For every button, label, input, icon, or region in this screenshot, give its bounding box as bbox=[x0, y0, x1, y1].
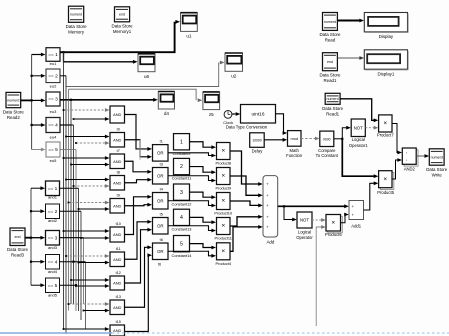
svg-text:×: × bbox=[221, 223, 225, 230]
svg-text:t11: t11 bbox=[116, 247, 121, 251]
svg-text:To Constant: To Constant bbox=[316, 153, 339, 158]
svg-text:AND2: AND2 bbox=[404, 167, 416, 172]
svg-text:Display1: Display1 bbox=[377, 72, 394, 77]
svg-text:NOT: NOT bbox=[354, 125, 363, 130]
svg-text:end: end bbox=[327, 60, 333, 64]
svg-text:Product5: Product5 bbox=[377, 190, 394, 195]
svg-text:Operator: Operator bbox=[296, 235, 313, 240]
svg-text:5: 5 bbox=[180, 241, 183, 247]
svg-text:OR: OR bbox=[157, 173, 164, 178]
svg-text:+: + bbox=[266, 193, 269, 198]
svg-text:Data Type Conversion: Data Type Conversion bbox=[226, 124, 268, 129]
svg-text:×: × bbox=[331, 219, 335, 226]
svg-text:Read1: Read1 bbox=[326, 112, 339, 117]
svg-text:and2: and2 bbox=[48, 218, 58, 223]
svg-text:×: × bbox=[221, 198, 225, 205]
svg-text:eu2: eu2 bbox=[50, 84, 57, 89]
svg-text:== 3: == 3 bbox=[48, 97, 58, 103]
svg-text:Logical: Logical bbox=[298, 229, 311, 234]
svg-text:×: × bbox=[221, 173, 225, 180]
svg-text:Display: Display bbox=[379, 34, 394, 39]
svg-text:×: × bbox=[383, 120, 387, 127]
svg-text:AND: AND bbox=[113, 232, 121, 237]
svg-text:and4: and4 bbox=[48, 269, 58, 274]
svg-text:Data Store: Data Store bbox=[426, 167, 448, 172]
svg-text:t6: t6 bbox=[158, 263, 161, 267]
svg-text:+: + bbox=[266, 224, 269, 229]
svg-text:AND: AND bbox=[113, 257, 121, 262]
svg-text:d4: d4 bbox=[164, 111, 170, 116]
svg-text:eu3: eu3 bbox=[50, 109, 57, 114]
svg-text:u1: u1 bbox=[186, 34, 192, 39]
svg-text:Add1: Add1 bbox=[351, 223, 361, 228]
svg-text:AND: AND bbox=[113, 203, 121, 208]
svg-text:AND: AND bbox=[113, 305, 121, 310]
svg-text:Function: Function bbox=[286, 153, 303, 158]
svg-text:u6: u6 bbox=[144, 74, 150, 79]
svg-text:+: + bbox=[351, 212, 354, 217]
svg-text:numerd: numerd bbox=[431, 155, 443, 159]
svg-text:Logical: Logical bbox=[352, 137, 365, 142]
svg-text:×: × bbox=[221, 148, 225, 155]
svg-text:1: 1 bbox=[180, 139, 183, 145]
svg-text:Read: Read bbox=[325, 38, 336, 43]
svg-text:t7: t7 bbox=[117, 149, 120, 153]
svg-text:numerd: numerd bbox=[324, 20, 336, 24]
svg-text:== 1: == 1 bbox=[48, 186, 58, 192]
svg-text:AND: AND bbox=[113, 281, 121, 286]
svg-text:numerd: numerd bbox=[7, 98, 19, 102]
svg-text:Data Store: Data Store bbox=[3, 109, 25, 114]
svg-text:Data Store: Data Store bbox=[319, 32, 341, 37]
svg-text:Constant11: Constant11 bbox=[172, 176, 192, 181]
svg-text:Add: Add bbox=[266, 240, 274, 245]
svg-text:2: 2 bbox=[180, 164, 183, 170]
svg-text:Read3: Read3 bbox=[11, 253, 24, 258]
svg-text:and3: and3 bbox=[48, 245, 58, 250]
svg-text:t1: t1 bbox=[160, 139, 163, 143]
svg-text:eu4: eu4 bbox=[50, 135, 57, 140]
svg-text:+: + bbox=[351, 204, 354, 209]
svg-text:t3: t3 bbox=[160, 162, 163, 166]
svg-text:== 1: == 1 bbox=[48, 52, 58, 58]
svg-text:+: + bbox=[266, 182, 269, 187]
svg-text:Product9: Product9 bbox=[215, 186, 231, 191]
svg-text:== 3: == 3 bbox=[48, 235, 58, 241]
svg-text:u2: u2 bbox=[231, 74, 237, 79]
svg-text:Product8: Product8 bbox=[215, 161, 231, 166]
svg-text:t8: t8 bbox=[117, 170, 120, 174]
svg-text:end: end bbox=[15, 235, 21, 239]
svg-text:== 2: == 2 bbox=[48, 73, 58, 79]
svg-text:Product11: Product11 bbox=[215, 236, 232, 241]
svg-text:OR: OR bbox=[157, 249, 164, 254]
svg-text:Constant14: Constant14 bbox=[172, 253, 193, 258]
svg-text:Product6: Product6 bbox=[325, 232, 342, 237]
svg-text:t13: t13 bbox=[116, 295, 121, 299]
svg-text:AND: AND bbox=[113, 180, 121, 185]
svg-text:AND: AND bbox=[113, 112, 121, 117]
svg-text:Product7: Product7 bbox=[377, 132, 394, 137]
svg-text:eu1: eu1 bbox=[50, 61, 57, 66]
svg-text:== 5: == 5 bbox=[48, 283, 58, 289]
svg-text:Data Store: Data Store bbox=[319, 72, 341, 77]
svg-text:t0: t0 bbox=[117, 127, 120, 131]
svg-text:end: end bbox=[119, 13, 125, 17]
svg-text:and5: and5 bbox=[48, 292, 58, 297]
svg-text:3: 3 bbox=[180, 190, 183, 196]
svg-text:AND: AND bbox=[113, 137, 121, 142]
svg-text:t15: t15 bbox=[116, 320, 121, 324]
svg-text:== 2: == 2 bbox=[48, 209, 58, 215]
svg-text:t5: t5 bbox=[160, 212, 163, 216]
svg-text:Write: Write bbox=[432, 172, 443, 177]
svg-text:eu5: eu5 bbox=[50, 158, 57, 163]
svg-text:OR: OR bbox=[157, 198, 164, 203]
svg-text:== 4: == 4 bbox=[48, 259, 58, 265]
svg-text:Constant13: Constant13 bbox=[172, 227, 192, 232]
svg-text:Data Store: Data Store bbox=[66, 24, 88, 29]
svg-text:t4: t4 bbox=[160, 187, 163, 191]
svg-text:Read2: Read2 bbox=[7, 115, 20, 120]
svg-text:AND: AND bbox=[113, 159, 121, 164]
svg-text:Constant12: Constant12 bbox=[172, 201, 192, 206]
svg-text:Operator1: Operator1 bbox=[349, 143, 369, 148]
svg-text:×: × bbox=[383, 176, 387, 183]
svg-text:Memory1: Memory1 bbox=[113, 29, 132, 34]
svg-text:0000: 0000 bbox=[323, 137, 331, 141]
svg-text:10000: 10000 bbox=[252, 139, 262, 143]
svg-text:mod: mod bbox=[290, 136, 298, 141]
svg-text:Memory: Memory bbox=[68, 30, 85, 35]
svg-text:4: 4 bbox=[180, 215, 183, 221]
svg-text:Read1: Read1 bbox=[323, 78, 336, 83]
svg-text:numerd: numerd bbox=[327, 97, 339, 101]
svg-text:+: + bbox=[266, 203, 269, 208]
svg-text:×: × bbox=[221, 248, 225, 255]
svg-text:AND: AND bbox=[113, 328, 121, 333]
svg-text:OR: OR bbox=[157, 223, 164, 228]
svg-text:Product4: Product4 bbox=[215, 261, 231, 266]
svg-text:Product10: Product10 bbox=[214, 211, 233, 216]
svg-text:+: + bbox=[266, 214, 269, 219]
svg-text:t6: t6 bbox=[160, 238, 163, 242]
svg-text:Data Store: Data Store bbox=[322, 106, 344, 111]
svg-text:numerd: numerd bbox=[70, 13, 82, 17]
svg-text:t10: t10 bbox=[116, 222, 121, 226]
svg-text:Delay: Delay bbox=[252, 148, 264, 153]
svg-text:== 4: == 4 bbox=[48, 123, 58, 129]
svg-text:== 5: == 5 bbox=[48, 147, 58, 153]
svg-text:OR: OR bbox=[157, 150, 164, 155]
svg-text:uint16: uint16 bbox=[251, 111, 264, 117]
svg-text:NOT: NOT bbox=[300, 218, 309, 223]
svg-text:z5: z5 bbox=[209, 112, 214, 117]
svg-text:Data Store: Data Store bbox=[112, 23, 134, 28]
svg-text:Data Store: Data Store bbox=[7, 247, 29, 252]
svg-text:t12: t12 bbox=[116, 271, 121, 275]
svg-text:t9: t9 bbox=[117, 193, 120, 197]
svg-text:and1: and1 bbox=[48, 195, 58, 200]
